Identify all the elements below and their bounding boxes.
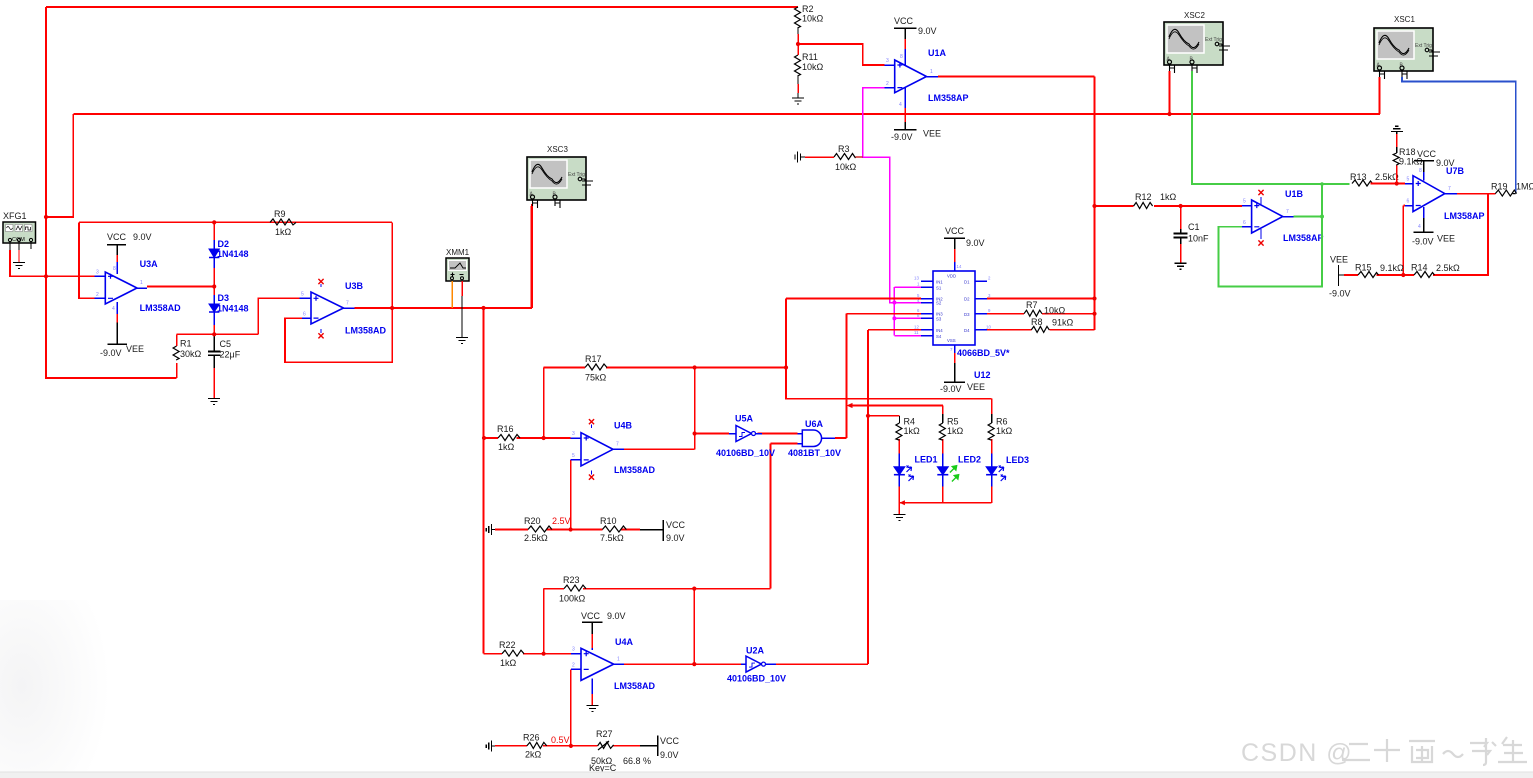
svg-text:1N4148: 1N4148 [217, 304, 249, 314]
svg-text:2: 2 [572, 663, 575, 669]
svg-text:R27: R27 [596, 729, 613, 739]
svg-text:1MΩ: 1MΩ [1516, 182, 1533, 192]
svg-text:5: 5 [301, 292, 304, 298]
svg-text:1N4148: 1N4148 [217, 249, 249, 259]
svg-text:XFG1: XFG1 [3, 211, 27, 221]
svg-text:6: 6 [1407, 199, 1410, 205]
svg-text:10kΩ: 10kΩ [835, 162, 857, 172]
svg-text:1kΩ: 1kΩ [275, 227, 292, 237]
svg-text:LED2: LED2 [958, 455, 981, 465]
svg-text:C1: C1 [1188, 222, 1200, 232]
svg-text:D1: D1 [964, 280, 970, 285]
svg-text:7.5kΩ: 7.5kΩ [600, 533, 624, 543]
svg-text:R11: R11 [802, 52, 818, 62]
svg-text:U1A: U1A [928, 48, 947, 58]
svg-text:1kΩ: 1kΩ [498, 442, 515, 452]
svg-text:S4: S4 [936, 334, 942, 339]
svg-text:VEE: VEE [967, 382, 985, 392]
svg-text:R7: R7 [1026, 300, 1038, 310]
svg-text:91kΩ: 91kΩ [1052, 318, 1074, 328]
svg-text:7: 7 [616, 442, 619, 448]
svg-text:D3: D3 [964, 312, 970, 317]
svg-text:14: 14 [957, 264, 962, 269]
svg-text:12: 12 [914, 325, 919, 330]
svg-text:30kΩ: 30kΩ [180, 349, 202, 359]
svg-text:8: 8 [113, 266, 116, 272]
svg-text:R15: R15 [1355, 263, 1372, 273]
svg-text:U2A: U2A [746, 646, 765, 656]
svg-text:R1: R1 [180, 339, 192, 349]
svg-text:9.0V: 9.0V [133, 232, 152, 242]
svg-text:VEE: VEE [126, 344, 144, 354]
svg-text:22μF: 22μF [220, 350, 241, 360]
svg-text:2.5V: 2.5V [552, 516, 571, 526]
svg-text:R12: R12 [1135, 192, 1152, 202]
svg-text:2.5kΩ: 2.5kΩ [524, 533, 548, 543]
svg-text:7: 7 [346, 301, 349, 307]
svg-text:R9: R9 [274, 209, 286, 219]
svg-text:LM358AP: LM358AP [1444, 211, 1485, 221]
svg-text:IN1: IN1 [936, 279, 943, 284]
svg-text:10kΩ: 10kΩ [802, 62, 824, 72]
svg-text:75kΩ: 75kΩ [585, 373, 607, 383]
svg-text:VDD: VDD [947, 274, 956, 279]
svg-text:3: 3 [96, 270, 99, 276]
svg-text:1kΩ: 1kΩ [996, 426, 1013, 436]
svg-text:VCC: VCC [581, 611, 601, 621]
svg-text:VSS: VSS [947, 338, 956, 343]
svg-text:D3: D3 [218, 293, 230, 303]
svg-text:1kΩ: 1kΩ [904, 426, 921, 436]
svg-text:R17: R17 [585, 354, 602, 364]
svg-text:D4: D4 [964, 328, 970, 333]
svg-text:S2: S2 [936, 301, 942, 306]
svg-text:XSC2: XSC2 [1184, 11, 1205, 20]
svg-text:U7B: U7B [1446, 166, 1465, 176]
svg-text:R10: R10 [600, 516, 617, 526]
svg-text:7: 7 [1286, 209, 1289, 215]
svg-text:2: 2 [886, 81, 889, 87]
svg-text:10kΩ: 10kΩ [1044, 306, 1066, 316]
svg-text:R23: R23 [563, 575, 580, 585]
svg-text:CSDN @: CSDN @ [1241, 739, 1353, 767]
svg-text:8: 8 [900, 54, 903, 60]
svg-text:10nF: 10nF [1188, 234, 1209, 244]
svg-text:U4B: U4B [614, 421, 633, 431]
svg-text:10kΩ: 10kΩ [802, 14, 824, 24]
svg-text:4: 4 [1418, 224, 1421, 230]
svg-text:6: 6 [1243, 220, 1246, 226]
svg-text:R14: R14 [1411, 263, 1428, 273]
svg-text:XMM1: XMM1 [446, 248, 470, 257]
svg-text:R8: R8 [1031, 317, 1043, 327]
svg-text:R4: R4 [904, 417, 916, 427]
svg-text:40106BD_10V: 40106BD_10V [716, 448, 775, 458]
svg-text:66.8 %: 66.8 % [623, 756, 651, 766]
svg-text:R19: R19 [1491, 182, 1508, 192]
svg-text:1kΩ: 1kΩ [500, 658, 517, 668]
svg-text:3: 3 [572, 431, 575, 437]
svg-text:LM358AP: LM358AP [928, 93, 969, 103]
svg-text:R20: R20 [524, 516, 541, 526]
svg-text:-9.0V: -9.0V [891, 132, 913, 142]
svg-text:-9.0V: -9.0V [100, 348, 122, 358]
svg-text:XSC3: XSC3 [547, 145, 568, 154]
svg-text:4081BT_10V: 4081BT_10V [788, 448, 841, 458]
svg-text:13: 13 [914, 276, 919, 281]
svg-text:LED3: LED3 [1006, 455, 1029, 465]
svg-text:5: 5 [1243, 199, 1246, 205]
svg-text:R2: R2 [802, 4, 814, 14]
svg-text:U3B: U3B [345, 281, 364, 291]
svg-text:U3A: U3A [140, 259, 159, 269]
svg-text:8: 8 [1419, 168, 1422, 174]
svg-text:C5: C5 [220, 339, 232, 349]
svg-text:5: 5 [1407, 177, 1410, 183]
svg-text:1: 1 [617, 657, 620, 663]
svg-text:U6A: U6A [805, 419, 824, 429]
svg-text:VEE: VEE [923, 129, 941, 139]
svg-text:6: 6 [303, 312, 306, 318]
svg-text:1: 1 [140, 280, 143, 286]
svg-text:LM358AD: LM358AD [614, 465, 656, 475]
svg-text:10: 10 [986, 325, 991, 330]
svg-text:100kΩ: 100kΩ [559, 594, 586, 604]
svg-text:R16: R16 [497, 424, 514, 434]
svg-text:R3: R3 [838, 144, 850, 154]
svg-text:R26: R26 [523, 733, 540, 743]
svg-text:9.0V: 9.0V [607, 611, 626, 621]
svg-text:U1B: U1B [1285, 189, 1304, 199]
svg-text:2: 2 [96, 292, 99, 298]
svg-text:S1: S1 [936, 285, 942, 290]
svg-text:R22: R22 [499, 640, 516, 650]
svg-text:3: 3 [886, 58, 889, 64]
svg-text:D2: D2 [964, 297, 970, 302]
svg-text:VEE: VEE [1437, 234, 1455, 244]
svg-text:LM358AD: LM358AD [140, 303, 182, 313]
svg-text:-9.0V: -9.0V [1412, 237, 1434, 247]
svg-text:3: 3 [572, 647, 575, 653]
svg-text:VCC: VCC [107, 232, 127, 242]
svg-text:R6: R6 [996, 417, 1008, 427]
svg-text:U5A: U5A [735, 414, 754, 424]
svg-text:R18: R18 [1399, 147, 1416, 157]
svg-text:1kΩ: 1kΩ [947, 426, 964, 436]
svg-text:2kΩ: 2kΩ [525, 750, 542, 760]
svg-text:XSC1: XSC1 [1394, 15, 1415, 24]
svg-text:7: 7 [1448, 186, 1451, 192]
svg-text:2.5kΩ: 2.5kΩ [1375, 172, 1399, 182]
svg-text:VCC: VCC [894, 16, 914, 26]
svg-text:40106BD_10V: 40106BD_10V [727, 674, 786, 684]
svg-text:U4A: U4A [615, 637, 634, 647]
svg-text:LM358AP: LM358AP [1283, 233, 1324, 243]
svg-text:5: 5 [572, 453, 575, 459]
svg-text:R5: R5 [947, 417, 959, 427]
svg-text:1kΩ: 1kΩ [1160, 192, 1177, 202]
svg-text:1: 1 [930, 69, 933, 75]
svg-text:-9.0V: -9.0V [940, 384, 962, 394]
svg-text:9.0V: 9.0V [666, 533, 685, 543]
svg-text:LM358AD: LM358AD [345, 326, 387, 336]
svg-text:LM358AD: LM358AD [614, 681, 656, 691]
svg-text:VEE: VEE [1330, 255, 1348, 265]
svg-text:0.5V: 0.5V [551, 735, 570, 745]
svg-text:9.0V: 9.0V [918, 26, 937, 36]
svg-text:9.0V: 9.0V [966, 238, 985, 248]
svg-text:VCC: VCC [945, 226, 965, 236]
svg-text:LED1: LED1 [915, 455, 938, 465]
svg-text:VCC: VCC [666, 520, 686, 530]
svg-text:D2: D2 [218, 239, 230, 249]
svg-text:2.5kΩ: 2.5kΩ [1436, 263, 1460, 273]
svg-text:IN4: IN4 [936, 328, 943, 333]
svg-text:9.1kΩ: 9.1kΩ [1380, 263, 1404, 273]
svg-text:VCC: VCC [1417, 149, 1437, 159]
svg-text:U12: U12 [974, 370, 991, 380]
svg-text:4: 4 [899, 102, 902, 108]
svg-text:4066BD_5V*: 4066BD_5V* [957, 348, 1010, 358]
svg-text:VCC: VCC [660, 736, 680, 746]
svg-text:S3: S3 [936, 317, 942, 322]
svg-text:R13: R13 [1350, 172, 1367, 182]
svg-text:11: 11 [914, 330, 919, 335]
svg-text:-9.0V: -9.0V [1329, 289, 1351, 299]
svg-text:4: 4 [112, 306, 115, 312]
svg-text:9.0V: 9.0V [660, 750, 679, 760]
